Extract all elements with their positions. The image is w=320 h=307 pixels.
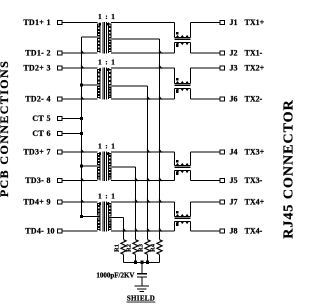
svg-text:SHIELD: SHIELD (127, 295, 155, 303)
svg-text:J2: J2 (230, 49, 238, 58)
svg-text:TX1-: TX1- (245, 49, 263, 58)
svg-text:TX3+: TX3+ (245, 148, 265, 157)
svg-text:PCB CONNECTIONS: PCB CONNECTIONS (0, 60, 11, 197)
svg-text:J4: J4 (230, 148, 238, 157)
svg-text:RJ45 CONNECTOR: RJ45 CONNECTOR (282, 99, 297, 238)
svg-text:J8: J8 (230, 227, 238, 236)
svg-text:J7: J7 (230, 198, 238, 207)
svg-text:1:1: 1:1 (98, 192, 119, 201)
svg-text:1000pF/2KV: 1000pF/2KV (96, 271, 134, 279)
svg-text:10: 10 (47, 227, 55, 236)
svg-text:1: 1 (47, 18, 51, 27)
svg-text:R3: R3 (137, 243, 144, 252)
svg-text:TX2+: TX2+ (245, 64, 265, 73)
svg-text:TD2-: TD2- (25, 95, 44, 104)
svg-text:TD3+: TD3+ (23, 148, 44, 157)
svg-text:5: 5 (47, 114, 51, 123)
svg-text:TD3-: TD3- (25, 176, 44, 185)
svg-text:TX2-: TX2- (245, 95, 263, 104)
svg-text:TD4-: TD4- (25, 227, 44, 236)
svg-text:7: 7 (47, 148, 51, 157)
svg-text:6: 6 (47, 129, 51, 138)
svg-text:4: 4 (47, 95, 51, 104)
svg-text:J3: J3 (230, 64, 238, 73)
svg-text:1:1: 1:1 (98, 142, 119, 151)
svg-text:TD1-: TD1- (25, 49, 44, 58)
svg-text:1:1: 1:1 (98, 58, 119, 67)
svg-text:8: 8 (47, 176, 51, 185)
svg-text:R2: R2 (125, 244, 132, 252)
svg-text:R1: R1 (113, 244, 120, 252)
svg-text:J5: J5 (230, 176, 238, 185)
svg-text:R4: R4 (149, 243, 156, 252)
svg-text:TX1+: TX1+ (245, 18, 265, 27)
svg-text:J6: J6 (230, 95, 238, 104)
svg-text:2: 2 (47, 49, 51, 58)
svg-text:J1: J1 (230, 18, 238, 27)
svg-text:TD1+: TD1+ (23, 18, 44, 27)
svg-text:CT: CT (32, 129, 44, 138)
svg-text:CT: CT (32, 114, 44, 123)
svg-text:1:1: 1:1 (98, 12, 119, 21)
svg-text:TD4+: TD4+ (23, 198, 44, 207)
svg-text:3: 3 (47, 64, 51, 73)
svg-text:TD2+: TD2+ (23, 64, 44, 73)
svg-text:TX3-: TX3- (245, 176, 263, 185)
svg-text:9: 9 (47, 198, 51, 207)
svg-text:TX4+: TX4+ (245, 198, 265, 207)
svg-text:TX4-: TX4- (245, 227, 263, 236)
